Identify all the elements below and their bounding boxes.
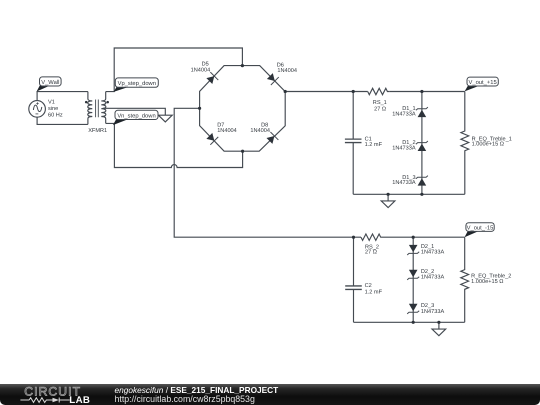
ground (top section) bbox=[381, 194, 395, 207]
svg-text:1.2 mF: 1.2 mF bbox=[365, 289, 383, 295]
svg-text:C2: C2 bbox=[365, 283, 372, 289]
diode D7 bbox=[205, 132, 218, 145]
node label Vn_step_down bbox=[113, 110, 158, 125]
junction node zener1 top bbox=[420, 90, 423, 93]
svg-text:27 Ω: 27 Ω bbox=[374, 106, 386, 112]
svg-text:1N4004: 1N4004 bbox=[191, 67, 211, 73]
svg-text:V_out_+15: V_out_+15 bbox=[468, 80, 496, 86]
zener D1_1 bbox=[416, 107, 428, 117]
diode D8 bbox=[265, 132, 278, 145]
junction node ground bottom rail bbox=[437, 321, 440, 324]
svg-text:1N4004: 1N4004 bbox=[250, 128, 270, 134]
zener D2_2 bbox=[407, 270, 419, 280]
zener branch 2 wire bbox=[412, 237, 414, 322]
svg-text:Vp_step_down: Vp_step_down bbox=[118, 80, 156, 87]
wire bridge left vertex to negative rail bbox=[174, 108, 361, 237]
zener D2_1 bbox=[407, 245, 419, 255]
resistor RS_1 bbox=[368, 88, 390, 94]
junction node bridge left bbox=[198, 107, 201, 110]
junction node bridge top bbox=[241, 64, 244, 67]
wire V1 top to primary bbox=[37, 92, 88, 101]
resistor R_EQ_Treble_1 bbox=[461, 92, 469, 195]
svg-text:1.000e+15 Ω: 1.000e+15 Ω bbox=[471, 279, 503, 285]
svg-text:1N4733A: 1N4733A bbox=[421, 275, 445, 281]
transformer phase dot right bbox=[106, 101, 109, 104]
junction node C1 top bbox=[352, 90, 355, 93]
svg-text:LAB: LAB bbox=[69, 395, 90, 405]
junction node C2 top bbox=[352, 236, 355, 239]
negative rail RS_2 resistor bbox=[361, 234, 383, 240]
zener branch 1 wire bbox=[421, 92, 423, 195]
wire bridge right to V_out_+15 rail bbox=[285, 91, 368, 93]
junction node zener2 bottom bbox=[412, 321, 415, 324]
svg-text:RS_1: RS_1 bbox=[373, 100, 387, 106]
capacitor C2 plates bbox=[345, 286, 362, 290]
node label V_out_+15 bbox=[465, 77, 499, 91]
svg-text:Vn_step_down: Vn_step_down bbox=[117, 112, 155, 119]
bridge rectifier octagon bbox=[200, 66, 286, 152]
junction node zener2 top bbox=[412, 236, 415, 239]
svg-text:sine: sine bbox=[48, 105, 58, 112]
resistor R_EQ_Treble_2 bbox=[461, 237, 469, 322]
ground (bottom section) bbox=[432, 322, 446, 335]
voltage source V1 bbox=[29, 101, 46, 118]
CircuitLab logo bbox=[0, 384, 100, 405]
svg-text:1N4733A: 1N4733A bbox=[421, 309, 445, 315]
svg-text:V_out_-15: V_out_-15 bbox=[467, 226, 494, 232]
zener D2_3 bbox=[407, 304, 419, 314]
wire RS_2 to corner bbox=[383, 236, 465, 238]
capacitor C2 branch bbox=[353, 237, 355, 322]
svg-text:27 Ω: 27 Ω bbox=[365, 250, 377, 256]
svg-text:V1: V1 bbox=[48, 100, 55, 106]
zener D1_2 bbox=[416, 141, 428, 151]
wire RS_1 to corner bbox=[389, 91, 465, 93]
node label V_out_-15 bbox=[465, 223, 495, 238]
footer url bbox=[115, 394, 255, 404]
capacitor C1 branch bbox=[352, 92, 354, 195]
svg-text:1N4733A: 1N4733A bbox=[392, 180, 416, 186]
junction node ground top rail bbox=[387, 193, 390, 196]
wire secondary bottom to Vn corner down and right to bridge bottom (with hop) bbox=[106, 123, 243, 167]
ground (center tap) bbox=[158, 115, 172, 122]
diode D5 bbox=[205, 72, 218, 85]
transformer XFMR1 bbox=[88, 92, 106, 125]
svg-text:1N4004: 1N4004 bbox=[217, 128, 237, 134]
svg-text:1N4004: 1N4004 bbox=[277, 68, 297, 74]
zener D1_3 bbox=[416, 176, 428, 186]
svg-text:V_Wall: V_Wall bbox=[41, 79, 59, 86]
svg-text:60 Hz: 60 Hz bbox=[48, 112, 63, 118]
diode D6 bbox=[266, 72, 279, 85]
junction node bridge bottom bbox=[241, 150, 244, 153]
junction node bridge right bbox=[284, 90, 287, 93]
node label V_Wall bbox=[37, 77, 62, 92]
top section bottom rail bbox=[353, 193, 465, 195]
footer project text bbox=[115, 385, 279, 395]
junction node zener1 bottom bbox=[420, 193, 423, 196]
svg-text:1N4733A: 1N4733A bbox=[392, 111, 416, 117]
transformer phase dot left bbox=[85, 101, 88, 104]
node label Vp_step_down bbox=[114, 78, 159, 92]
wire secondary top to top rail to bridge top bbox=[106, 48, 243, 92]
bottom section bottom rail bbox=[354, 321, 465, 323]
svg-text:1.2 mF: 1.2 mF bbox=[365, 142, 383, 148]
capacitor C1 plates bbox=[345, 139, 362, 142]
svg-text:1N4733A: 1N4733A bbox=[392, 145, 416, 151]
svg-text:1N4733A: 1N4733A bbox=[421, 250, 445, 256]
wire center tap to ground bbox=[103, 108, 166, 115]
wire V1 bottom to primary bbox=[37, 117, 88, 124]
svg-text:1.000e+15 Ω: 1.000e+15 Ω bbox=[472, 142, 504, 148]
footer bar bbox=[0, 384, 540, 405]
svg-text:XFMR1: XFMR1 bbox=[88, 128, 107, 134]
